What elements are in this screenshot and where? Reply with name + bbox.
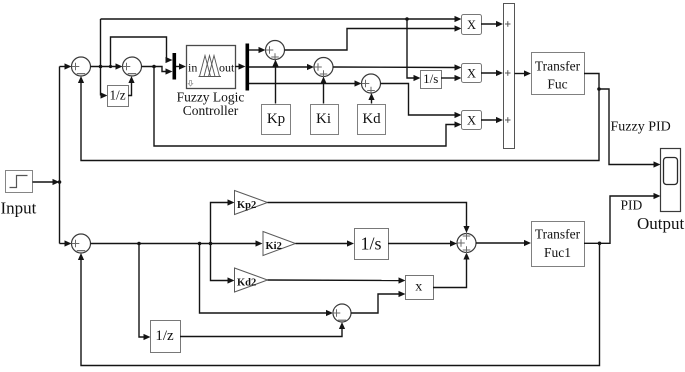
node J3 xyxy=(109,65,112,68)
svg-text:in: in xyxy=(188,61,197,75)
wire Kp2 to sum2c top xyxy=(268,203,470,234)
svg-text:Kd: Kd xyxy=(362,111,381,127)
scope Output xyxy=(661,149,681,212)
transfer fcn Transfer Fuc1 xyxy=(532,222,585,267)
wire demux out3 to sumC xyxy=(249,80,362,86)
wire J2 down to integrator xyxy=(407,19,421,81)
wire mux to FLC xyxy=(176,63,186,69)
wire Kp to sumA xyxy=(272,60,278,104)
svg-text:1/z: 1/z xyxy=(155,328,174,344)
wire J5 to scope port1 xyxy=(599,89,661,168)
node J8 xyxy=(209,242,213,246)
wire 1/s bottom to sum2c left xyxy=(388,240,457,246)
wire X1 to sumrect xyxy=(481,21,503,27)
gain Kd xyxy=(358,105,386,135)
svg-text:1/s: 1/s xyxy=(423,71,438,86)
svg-text:1/s: 1/s xyxy=(360,234,381,254)
sum rectangle (3-input add) xyxy=(504,4,515,149)
wire sumB to X2 in1 xyxy=(333,64,462,70)
sum S1 (top-left) xyxy=(72,57,91,76)
wire J1 vertical (top line / delay feed) xyxy=(100,19,102,96)
wire FLC to demux xyxy=(235,63,246,69)
gain Kp xyxy=(262,105,291,135)
wire X3 to sumrect xyxy=(481,117,503,123)
wire sumA to X1 in2 xyxy=(285,25,462,50)
sum S2d xyxy=(333,304,351,322)
wire sum1 to sum1b xyxy=(91,63,123,69)
sum S2c xyxy=(457,232,476,254)
wire J8 down to Kd2 xyxy=(211,244,235,284)
svg-text:Transfer: Transfer xyxy=(535,59,581,74)
wire into sum2b left xyxy=(60,240,72,246)
node step junction xyxy=(58,180,62,184)
wire J7 down to sum2d left xyxy=(200,244,334,317)
wire sum2c to Transfer Fuc1 xyxy=(476,240,531,246)
node J6 xyxy=(137,242,141,246)
wire Transfer Fuc1 output to scope port2 xyxy=(584,193,661,243)
mux bar xyxy=(173,53,177,80)
svg-text:X: X xyxy=(467,113,476,127)
wire Xb to sum2c bottom xyxy=(433,253,470,288)
demux bar xyxy=(246,44,250,91)
node J5 xyxy=(597,87,601,91)
gain Kp2 triangle xyxy=(235,191,268,215)
wire J3 up over to mux in1 xyxy=(111,37,173,67)
node J9 xyxy=(598,242,602,246)
wire sum2b output to Ki2 xyxy=(91,240,263,246)
wire step output xyxy=(33,179,60,185)
wire sum1b to mux in2 xyxy=(142,67,173,75)
wire into sum1 left xyxy=(60,63,72,69)
node J1 xyxy=(99,65,103,69)
svg-text:Controller: Controller xyxy=(183,103,239,118)
wire J1 down into 1/z xyxy=(101,92,108,98)
svg-text:X: X xyxy=(467,18,476,32)
svg-text:1/z: 1/z xyxy=(109,88,125,103)
wire Kd2 to Xb in1 xyxy=(268,277,406,283)
product X1 xyxy=(462,15,482,35)
transfer fcn Transfer Fuc xyxy=(532,53,585,95)
sum S1b xyxy=(123,57,142,76)
wire sum2d to Xb in2 xyxy=(351,291,406,313)
integrator 1/s (top) xyxy=(421,71,442,89)
wire 1/s to X2 in2 xyxy=(441,75,462,81)
sum SB xyxy=(314,58,333,78)
svg-text:X: X xyxy=(467,66,476,80)
unit delay 1/z (bottom) xyxy=(151,321,181,353)
fuzzy logic controller block xyxy=(187,46,236,89)
wire bottom feedback xyxy=(78,243,600,365)
wire sumC to X3 in1 xyxy=(381,84,462,119)
svg-text:Output: Output xyxy=(637,214,685,233)
svg-text:Transfer: Transfer xyxy=(535,227,581,242)
gain Kd2 triangle xyxy=(235,268,268,292)
wire demux out2 to sumB xyxy=(249,64,314,70)
svg-text:PID: PID xyxy=(621,198,643,213)
wire 1/z bottom to sum2d bottom xyxy=(180,322,345,337)
unit delay 1/z (top) xyxy=(108,86,129,107)
svg-text:out: out xyxy=(219,61,235,75)
wire J8 up to Kp2 xyxy=(211,199,235,243)
gain Ki2 triangle xyxy=(263,232,296,256)
gain Ki xyxy=(311,105,339,135)
wire J4 down to X3 second input xyxy=(154,67,462,147)
node J4 xyxy=(152,65,156,69)
svg-text:Ki: Ki xyxy=(316,111,331,127)
wire demux out1 to sumA xyxy=(249,47,266,53)
svg-text:Fuc1: Fuc1 xyxy=(544,245,571,260)
wire sumrect to Transfer Fuc xyxy=(515,70,532,76)
sum SA xyxy=(266,41,285,61)
wire J6 down to 1/z bottom xyxy=(139,244,151,341)
svg-text:Fuc: Fuc xyxy=(547,77,567,92)
sum SC xyxy=(362,74,381,94)
svg-text:x: x xyxy=(415,280,422,295)
wire 1/z to sum1b bottom xyxy=(128,76,135,96)
step source Input xyxy=(6,171,33,193)
wire Transfer Fuc output / feedback xyxy=(78,74,599,161)
wire Ki to sumB xyxy=(320,77,326,104)
svg-text:Kp: Kp xyxy=(267,111,285,127)
product Xb xyxy=(406,276,434,300)
svg-text:Ki2: Ki2 xyxy=(266,241,282,252)
wire X2 to sumrect xyxy=(481,70,503,76)
node J7 xyxy=(198,242,202,246)
svg-text:Input: Input xyxy=(1,199,37,218)
wire top line to X1 xyxy=(101,16,462,22)
product X3 xyxy=(462,111,482,130)
product X2 xyxy=(462,64,482,83)
svg-text:Kp2: Kp2 xyxy=(237,200,256,211)
sum S2b (bottom-left) xyxy=(72,234,91,253)
wire Kd to sumC xyxy=(368,93,374,104)
integrator 1/s (bottom) xyxy=(355,229,389,260)
wire Ki2 to 1/s bottom xyxy=(296,240,355,246)
svg-text:Kd2: Kd2 xyxy=(237,278,256,289)
label Fuzzy Logic Controller xyxy=(177,90,245,118)
wire error trunk vertical xyxy=(59,67,61,244)
node J2 xyxy=(405,17,409,21)
svg-text:Fuzzy PID: Fuzzy PID xyxy=(611,120,671,135)
